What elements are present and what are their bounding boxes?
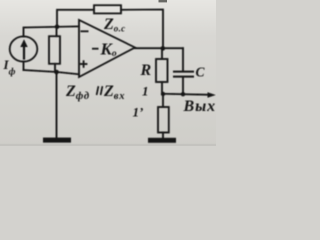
svg-text:1: 1 <box>142 84 149 99</box>
resistor R top lead <box>161 48 163 59</box>
capacitor C bottom plate <box>174 76 193 78</box>
svg-text:C: C <box>196 65 206 80</box>
current source arrow head <box>20 39 27 47</box>
resistor 1' bottom lead <box>162 133 164 139</box>
svg-text:R: R <box>140 62 152 79</box>
wire: feedback left riser to Zoc box <box>57 10 94 27</box>
op-amp gain label -Ko <box>92 48 99 50</box>
top edge smudge <box>159 0 168 2</box>
op-amp plus sign <box>80 60 88 68</box>
current source bottom lead <box>23 62 25 71</box>
resistor R bottom lead <box>161 82 163 94</box>
wire: left ground drop <box>56 72 58 138</box>
ground (right) <box>148 138 176 143</box>
resistor 1' top lead <box>162 94 164 107</box>
svg-text:Вых: Вых <box>183 98 216 115</box>
node dot: node 1 junction <box>161 92 165 96</box>
svg-text:1’: 1’ <box>133 105 144 120</box>
paper background <box>0 0 216 146</box>
feedback impedance Zoc box <box>94 5 121 13</box>
wire: bottom rail to non-inverting input <box>24 70 80 74</box>
resistor Zfd top lead <box>56 27 58 36</box>
resistor Zfd bottom lead <box>54 64 56 72</box>
resistor 1' body <box>158 107 169 133</box>
op-amp U1 triangle <box>79 20 135 77</box>
node dot: inverting input junction <box>55 25 60 30</box>
wire: op-amp output to capacitor branch <box>135 47 183 49</box>
current source arrow shaft <box>23 44 25 59</box>
wire: current source top lead up to inverting-input rail <box>24 26 80 36</box>
current source If circle <box>10 36 38 61</box>
capacitor C top plate <box>174 71 193 73</box>
paper bottom shadow <box>0 144 216 146</box>
op-amp minus sign <box>81 30 89 32</box>
wire: capacitor top lead <box>182 48 184 71</box>
output arrow head <box>208 92 216 98</box>
capacitor bottom lead <box>182 78 184 95</box>
parallel sign <box>97 86 103 95</box>
ground (left) <box>43 138 71 143</box>
node dot: output junction <box>161 46 166 51</box>
node dot: capacitor-output junction <box>181 92 185 96</box>
wire: Zoc box to output riser <box>121 10 163 49</box>
resistor Zfd body <box>49 36 60 64</box>
wire: output node row <box>162 94 211 95</box>
node dot: bottom rail junction <box>54 70 59 75</box>
resistor R body <box>156 59 168 82</box>
